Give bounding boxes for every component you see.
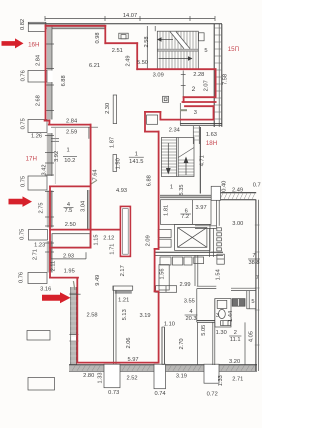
partition x113.4 [112,286,114,365]
box right of wall [217,254,224,264]
svg-text:1.95: 1.95 [64,269,75,275]
red y106 [185,105,214,107]
pilaster box [211,186,220,200]
partition x162 [161,327,163,365]
dark duct 1 [232,299,238,307]
svg-text:0.75: 0.75 [21,118,27,129]
door opening below wall [204,364,219,383]
wall band hatch [220,193,223,199]
dimension line 14.07 [45,18,215,20]
svg-text:18Н: 18Н [206,140,217,147]
wall tick [45,251,54,253]
svg-text:4.71: 4.71 [200,155,206,166]
red step 0.98 [104,26,106,43]
right wall outer x222 [221,24,223,127]
porch rect 1 [27,331,50,341]
window sill 0.75 [29,230,48,241]
svg-text:2.12: 2.12 [103,235,114,241]
svg-text:7.64: 7.64 [93,169,99,180]
wall tick [45,225,54,227]
door opening below wall [154,364,166,389]
svg-text:3.04: 3.04 [81,201,87,212]
building edge x200 [199,127,201,194]
svg-text:0.7: 0.7 [253,183,261,189]
corridor wall x197.5 [197,322,199,365]
svg-text:2.58: 2.58 [86,312,97,318]
svg-text:2.84: 2.84 [66,118,77,124]
svg-text:2.06: 2.06 [126,337,132,348]
svg-text:10.2: 10.2 [64,158,75,164]
svg-text:16Н: 16Н [28,42,39,49]
svg-text:0.75: 0.75 [20,229,26,240]
red x160.4 [159,112,161,120]
red y124.6 [49,124,91,126]
svg-text:3.00: 3.00 [232,221,243,227]
top outer wall [28,23,222,25]
svg-text:2.51: 2.51 [112,48,123,54]
partition top bar [113,286,133,290]
red arrow 16N [2,38,24,48]
step wall left [50,249,52,259]
svg-text:1.33: 1.33 [98,372,104,383]
red arrow 3.16 [42,292,71,303]
svg-text:3.19: 3.19 [139,313,150,319]
svg-text:1.81: 1.81 [163,205,169,216]
stair up arrow [185,158,187,175]
top wall poche [46,25,105,29]
stair flight diagonal [178,148,194,158]
left wall inner edge [51,26,53,71]
red jog x49.4 [48,121,50,125]
svg-text:2.70: 2.70 [179,338,185,349]
svg-text:6.88: 6.88 [61,75,67,86]
svg-text:5: 5 [251,299,254,305]
svg-text:3.55: 3.55 [184,298,195,304]
svg-text:2.50: 2.50 [65,222,76,228]
svg-text:5.50: 5.50 [137,60,148,66]
red x158.6 long boundary [158,132,160,249]
counter row [156,286,177,293]
window sill 0.76 [28,71,47,83]
wall tick [45,162,54,164]
wall tick [45,135,54,137]
svg-text:0.72: 0.72 [207,391,218,397]
bottom wall hatch [72,365,76,371]
svg-text:1.30: 1.30 [216,330,227,336]
svg-text:3.20: 3.20 [229,359,240,365]
svg-text:0.82: 0.82 [20,19,26,30]
wall rungs [214,27,222,29]
wall x180 room3 [179,103,181,125]
tick at 3.16 [70,293,81,295]
red y43 [105,42,137,44]
window sill 0.75 [28,176,47,190]
wall y195 poche [160,195,216,198]
svg-text:5.13: 5.13 [122,309,128,320]
stair down arrow [167,143,169,173]
red left wall 16N [45,25,47,120]
red x158.6 lower [158,291,160,362]
svg-text:2: 2 [192,86,196,93]
svg-text:1.87: 1.87 [110,137,116,148]
wall tick [45,191,54,193]
stair arrow upper (left) [162,39,174,41]
svg-text:1.10: 1.10 [164,322,175,328]
svg-text:4.93: 4.93 [116,188,127,194]
olive door dash [180,109,187,111]
svg-text:7.5: 7.5 [64,208,72,214]
red top wall 16N [46,25,106,27]
svg-text:7: 7 [252,253,255,259]
stair mid divider [157,48,198,50]
stair box 15P [157,31,198,69]
olive door tick [91,180,97,184]
svg-text:6.88: 6.88 [146,175,152,186]
red y131.6 [145,131,159,133]
svg-text:0.73: 0.73 [108,390,119,396]
elevator cab [178,228,207,248]
stair arrow lower (right) [159,58,189,60]
red y119.6 bottom room3 [160,119,213,121]
top-left window sill [28,22,46,31]
red x154.6 [154,249,156,292]
room5 left wall [246,291,248,309]
bathroom left wall [214,299,216,327]
dashed partition [217,228,222,231]
red bottom of room2 [184,96,216,98]
svg-text:7.2: 7.2 [181,214,189,220]
wall x245 [244,322,246,365]
svg-text:1.63: 1.63 [206,132,217,138]
svg-text:2: 2 [234,330,237,336]
svg-text:2.17: 2.17 [120,265,126,276]
window sill 0.76 [28,273,47,284]
svg-text:7: 7 [256,275,259,281]
top wall inner line [46,28,106,30]
red arrow 17N [9,196,33,207]
svg-text:1.15: 1.15 [93,234,99,245]
stair left wall upper [154,26,156,31]
red jog y291 [155,290,159,292]
svg-text:4: 4 [189,309,192,315]
partition dark bar [115,290,132,293]
partition 2.30 [113,95,116,124]
bottom wall poche [69,365,257,371]
svg-text:1.21: 1.21 [118,298,129,304]
svg-text:2.71: 2.71 [232,377,243,383]
stairwell 18N box [161,138,194,177]
step wall bottom line [51,258,87,260]
svg-text:14.07: 14.07 [123,13,137,19]
red x50 [49,186,51,277]
svg-text:38.8: 38.8 [248,260,259,266]
svg-text:2.34: 2.34 [169,127,180,133]
wall tick [45,242,54,244]
wall x213 [212,322,214,365]
svg-text:141.5: 141.5 [129,159,143,165]
red y229.6 [50,229,121,231]
svg-text:2.07: 2.07 [203,80,209,91]
svg-text:0.40: 0.40 [222,181,228,192]
red y69.2 top of room2 [137,68,215,70]
duct box row 3 [184,257,192,265]
svg-text:4.05: 4.05 [249,331,255,342]
svg-text:2.52: 2.52 [126,376,137,382]
panel box symbol [163,96,169,102]
lower-left wall rungs [71,290,77,292]
svg-text:15П: 15П [228,46,239,53]
svg-text:2.75: 2.75 [38,202,44,213]
wall tick [45,216,54,218]
svg-text:3.16: 3.16 [40,287,51,293]
svg-text:0.75: 0.75 [20,176,26,187]
svg-text:5.97: 5.97 [127,357,138,363]
svg-text:2.59: 2.59 [66,130,77,136]
svg-text:1.56: 1.56 [160,268,166,279]
svg-text:0.98: 0.98 [95,32,101,43]
red x77.3 [76,278,78,362]
svg-text:2.68: 2.68 [35,95,41,106]
vent box right of stairs [199,33,205,41]
svg-text:3.19: 3.19 [176,373,187,379]
step wall right [85,252,87,259]
duct box row 1 [160,257,171,265]
right outer wall [255,200,257,371]
shaft box A [158,229,171,237]
svg-text:2.71: 2.71 [32,249,38,260]
svg-text:5: 5 [204,48,207,54]
svg-text:1.54: 1.54 [215,269,221,280]
dim line x183 [182,71,184,97]
svg-text:5.05: 5.05 [201,325,207,336]
stair hatch left flight [161,139,176,141]
closet box between red lines [52,234,90,248]
svg-text:11.1: 11.1 [230,337,241,343]
red y186.4 [50,185,91,187]
wall y252 [155,251,223,253]
wall x209.6 [209,228,211,257]
svg-text:2.80: 2.80 [83,373,94,379]
room 6 box [161,200,212,225]
stair hatching upper flight [159,32,161,49]
wall tick [45,110,54,112]
pier inner black outline [123,209,129,255]
svg-text:3: 3 [194,110,197,116]
wall tick [45,43,54,45]
svg-text:2.30: 2.30 [105,103,111,114]
inner wall x88.9 [88,127,90,139]
red bottom y362.6 [77,362,158,364]
svg-text:1: 1 [67,148,70,154]
red y247.6 [50,247,91,249]
red y277.6 [50,277,78,279]
red y112 [145,111,160,113]
wall y288 right [231,287,256,289]
svg-text:1.26: 1.26 [31,134,42,140]
right wall x219 [218,24,220,127]
svg-text:2.11: 2.11 [51,261,57,272]
red y102 [183,101,216,103]
vent box on top wall [119,33,128,39]
svg-text:7.58: 7.58 [223,74,229,85]
room5 bottom wall [247,308,256,310]
red jog y120.6 [45,120,50,122]
bathroom 3 box [215,299,231,327]
svg-text:1.23: 1.23 [34,242,45,248]
svg-text:3: 3 [216,313,219,319]
svg-text:20.3: 20.3 [185,316,196,322]
red x145 [144,112,146,132]
svg-text:2.93: 2.93 [63,254,74,260]
shaft box B [158,239,171,247]
wall x195 lower [194,255,196,286]
wall poche x87-90 [87,190,90,230]
fixture box [221,321,231,326]
svg-text:2.28: 2.28 [193,72,204,78]
stairwell left wall [146,26,148,69]
door opening below wall [104,364,120,388]
svg-text:9.49: 9.49 [95,275,101,286]
red right of room2 [215,69,217,97]
dim tick y141.3 [51,140,59,142]
red jog y249 [155,248,159,250]
elevator X 2 [178,228,207,248]
WC bowl [219,309,226,318]
svg-text:2.84: 2.84 [35,55,41,66]
stair diagonal band [170,32,190,49]
wall x197 [196,289,198,322]
svg-text:0.76: 0.76 [19,272,25,283]
right apartment top wall [217,192,256,194]
tall shaft box 1.56 [159,265,169,290]
svg-text:1.33: 1.33 [218,375,224,386]
elevator shaft outer [175,224,210,250]
svg-text:3.42: 3.42 [41,164,47,175]
svg-text:1.71: 1.71 [110,244,116,255]
svg-text:0.76: 0.76 [20,70,26,81]
red x137 [136,43,138,69]
room divider x192.5 [192,200,194,225]
wall y226 [195,225,216,227]
svg-text:2.58: 2.58 [144,36,150,47]
dark duct 2 [239,299,245,307]
wall y320.6 [197,320,215,322]
wall tick [45,68,54,70]
stair hatching lower flight [159,51,161,68]
window sill 0.75 [28,120,47,133]
wall tick [45,174,54,176]
box in red notch [147,115,158,124]
svg-text:3.92: 3.92 [54,151,60,162]
svg-text:5.35: 5.35 [179,184,185,195]
svg-text:2.49: 2.49 [125,55,131,66]
svg-text:1.44: 1.44 [228,311,234,322]
red x183.6 [183,97,185,102]
dim line x55 [54,128,56,184]
duct box row 4 [194,257,204,264]
porch rect 2 [28,378,55,391]
partition 1.50 [113,155,117,172]
svg-text:1: 1 [135,152,138,158]
svg-text:3.97: 3.97 [196,205,207,211]
lower-left wall poche [71,287,77,365]
svg-text:0.74: 0.74 [154,391,165,397]
red x213.5 [213,106,215,119]
svg-text:6.21: 6.21 [89,63,100,69]
left wall poche [47,26,52,283]
stair hatch right flight [178,159,194,161]
duct box row 2 [172,257,182,265]
window gap lower-left [70,335,77,342]
WC cistern [217,300,227,308]
svg-text:2.99: 2.99 [179,282,190,288]
wall tick [45,84,54,86]
svg-text:17Н: 17Н [26,155,37,162]
elevator X 1 [178,228,207,248]
inner wall line y127 [51,126,98,128]
wall y286 [197,285,217,287]
red pier outline [120,206,130,256]
svg-text:1: 1 [170,184,173,190]
svg-text:1.50: 1.50 [116,158,122,169]
svg-text:2.09: 2.09 [146,235,152,246]
wall x193 [192,126,194,144]
wall tick [45,152,54,154]
dim tick y138.7 [51,138,59,140]
svg-text:3.09: 3.09 [153,73,164,79]
block bottom wall y123.6 [180,123,222,125]
olive tick [73,281,75,290]
wall x216.6 [216,199,218,228]
right wall outer x214 [213,24,215,127]
stair divider [176,138,178,177]
red x90.6 [90,125,92,248]
